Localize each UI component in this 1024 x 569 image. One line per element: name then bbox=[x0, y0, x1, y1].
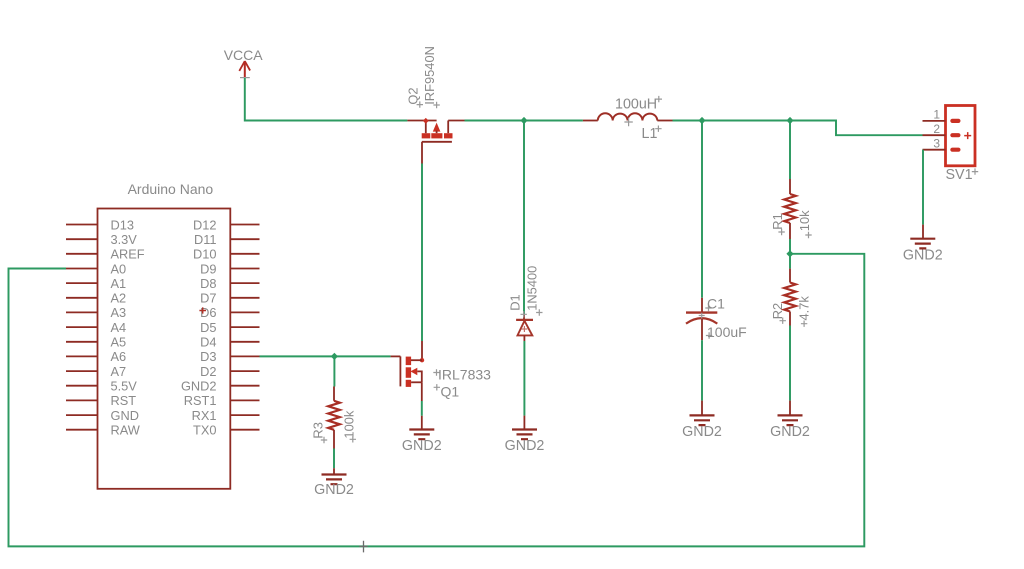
svg-text:GND2: GND2 bbox=[314, 482, 354, 498]
svg-text:IRL7833: IRL7833 bbox=[438, 367, 491, 383]
svg-text:A4: A4 bbox=[111, 320, 127, 335]
svg-text:A2: A2 bbox=[111, 291, 127, 306]
IC Arduino Nano bbox=[98, 181, 231, 489]
svg-text:D4: D4 bbox=[200, 335, 216, 350]
svg-text:GND2: GND2 bbox=[682, 424, 722, 440]
svg-text:A3: A3 bbox=[111, 305, 127, 320]
svg-text:GND2: GND2 bbox=[903, 248, 943, 264]
wire R1 to junction bbox=[789, 239, 791, 254]
node junction at R1 branch bbox=[786, 117, 793, 124]
wire R2 to GND bbox=[789, 326, 791, 401]
connector SV1 bbox=[923, 106, 976, 166]
label IRL7833 bbox=[433, 369, 439, 375]
svg-text:GND2: GND2 bbox=[181, 379, 217, 394]
ground GND2 under D1 bbox=[505, 430, 545, 455]
resistor R3 bbox=[333, 356, 335, 386]
svg-text:AREF: AREF bbox=[111, 247, 145, 262]
ground GND2 under SV1 bbox=[903, 239, 943, 264]
svg-text:1: 1 bbox=[933, 108, 940, 122]
svg-text:TX0: TX0 bbox=[193, 423, 216, 438]
svg-text:2: 2 bbox=[933, 122, 940, 136]
wire feedback from R1/R2 junction to A0 bbox=[9, 254, 865, 547]
label 100uF bbox=[706, 332, 712, 338]
node junction R1/R2 bbox=[786, 250, 793, 257]
svg-text:A6: A6 bbox=[111, 349, 127, 364]
pins Arduino left bbox=[66, 225, 98, 430]
svg-text:GND: GND bbox=[111, 408, 139, 423]
svg-text:D11: D11 bbox=[194, 232, 217, 247]
node junction R3/gate bbox=[331, 353, 338, 360]
wire VCCA to Q2 source bbox=[245, 78, 408, 121]
svg-text:100uH: 100uH bbox=[615, 97, 657, 113]
svg-text:10k: 10k bbox=[797, 210, 812, 231]
svg-text:RST: RST bbox=[111, 393, 137, 408]
svg-text:R1: R1 bbox=[770, 213, 785, 229]
svg-text:5.5V: 5.5V bbox=[111, 379, 138, 394]
wire Q2 gate down to Q1 drain bbox=[421, 142, 423, 164]
svg-text:D3: D3 bbox=[200, 349, 216, 364]
svg-text:VCCA: VCCA bbox=[224, 47, 264, 63]
wire R1 branch bbox=[789, 121, 791, 180]
svg-text:Q1: Q1 bbox=[441, 384, 460, 400]
svg-text:RX1: RX1 bbox=[192, 408, 217, 423]
svg-text:D9: D9 bbox=[200, 261, 216, 276]
wire to Q1 gate bbox=[391, 355, 401, 357]
capacitor C1 bbox=[686, 298, 717, 340]
svg-text:D8: D8 bbox=[200, 276, 216, 291]
svg-text:L1: L1 bbox=[642, 126, 658, 142]
svg-text:RAW: RAW bbox=[111, 423, 141, 438]
svg-text:1N5400: 1N5400 bbox=[525, 266, 540, 311]
wire R3 to GND bbox=[333, 449, 335, 469]
svg-text:100uF: 100uF bbox=[707, 324, 747, 340]
svg-text:D5: D5 bbox=[200, 320, 216, 335]
svg-text:IRF9540N: IRF9540N bbox=[422, 46, 437, 105]
svg-text:R3: R3 bbox=[311, 422, 326, 438]
svg-text:4.7k: 4.7k bbox=[796, 296, 811, 321]
wire Q2 drain to L1 bbox=[465, 120, 583, 122]
node junction at C1 branch bbox=[698, 117, 705, 124]
svg-text:R2: R2 bbox=[770, 303, 785, 319]
svg-text:GND2: GND2 bbox=[770, 424, 810, 440]
wire Q1 source to GND bbox=[421, 382, 423, 401]
wire L1 to SV1 area bbox=[673, 121, 923, 136]
svg-text:GND2: GND2 bbox=[505, 438, 545, 454]
wire R2 branch bbox=[789, 254, 791, 269]
label Q1 bbox=[434, 384, 440, 390]
wire D1 branch bbox=[523, 121, 525, 315]
svg-text:D12: D12 bbox=[193, 217, 216, 232]
inductor L1 bbox=[583, 113, 673, 126]
svg-text:A0: A0 bbox=[111, 261, 127, 276]
svg-text:D10: D10 bbox=[193, 247, 216, 262]
wire D3 to gate node bbox=[260, 355, 391, 357]
diode D1 bbox=[516, 314, 533, 341]
svg-text:A1: A1 bbox=[111, 276, 127, 291]
svg-text:D2: D2 bbox=[200, 364, 216, 379]
transistor Q1 IRL7833 (N-MOSFET, vertical) bbox=[400, 356, 424, 387]
pin labels Arduino right column bbox=[181, 217, 217, 437]
label C1 bbox=[705, 305, 711, 311]
svg-text:C1: C1 bbox=[707, 296, 725, 312]
pins Arduino right bbox=[230, 225, 259, 430]
pin labels Arduino left column bbox=[111, 217, 145, 437]
ground GND2 under R2 bbox=[770, 415, 810, 440]
svg-text:Q2: Q2 bbox=[406, 87, 421, 104]
supply VCCA bbox=[224, 47, 264, 78]
svg-text:3: 3 bbox=[933, 137, 940, 151]
svg-text:RST1: RST1 bbox=[184, 393, 217, 408]
svg-text:GND2: GND2 bbox=[402, 438, 442, 454]
wire D1 to GND bbox=[523, 341, 525, 416]
ground GND2 under C1 bbox=[682, 415, 722, 440]
transistor Q2 IRF9540N (P-MOSFET, horizontal) bbox=[407, 118, 464, 142]
resistor R2 bbox=[784, 269, 796, 326]
svg-text:D13: D13 bbox=[111, 217, 134, 232]
resistor R1 bbox=[784, 179, 796, 239]
svg-text:3.3V: 3.3V bbox=[111, 232, 138, 247]
svg-text:100k: 100k bbox=[342, 410, 357, 439]
svg-text:Arduino Nano: Arduino Nano bbox=[128, 181, 214, 197]
node cross on bottom wire bbox=[359, 541, 367, 553]
ground GND2 under Q1 bbox=[402, 430, 442, 455]
ground GND2 under R3 bbox=[314, 475, 354, 498]
svg-text:D7: D7 bbox=[200, 291, 216, 306]
svg-text:SV1: SV1 bbox=[946, 167, 973, 183]
node junction at D1 branch bbox=[520, 117, 527, 124]
svg-text:A7: A7 bbox=[111, 364, 127, 379]
origin cross of IC at D6 bbox=[199, 307, 206, 313]
wire C1 to GND bbox=[701, 340, 703, 400]
wire C1 branch bbox=[701, 121, 703, 298]
wire SV1 pin3 to GND bbox=[922, 150, 924, 225]
svg-text:D1: D1 bbox=[508, 294, 523, 310]
svg-text:A5: A5 bbox=[111, 335, 127, 350]
